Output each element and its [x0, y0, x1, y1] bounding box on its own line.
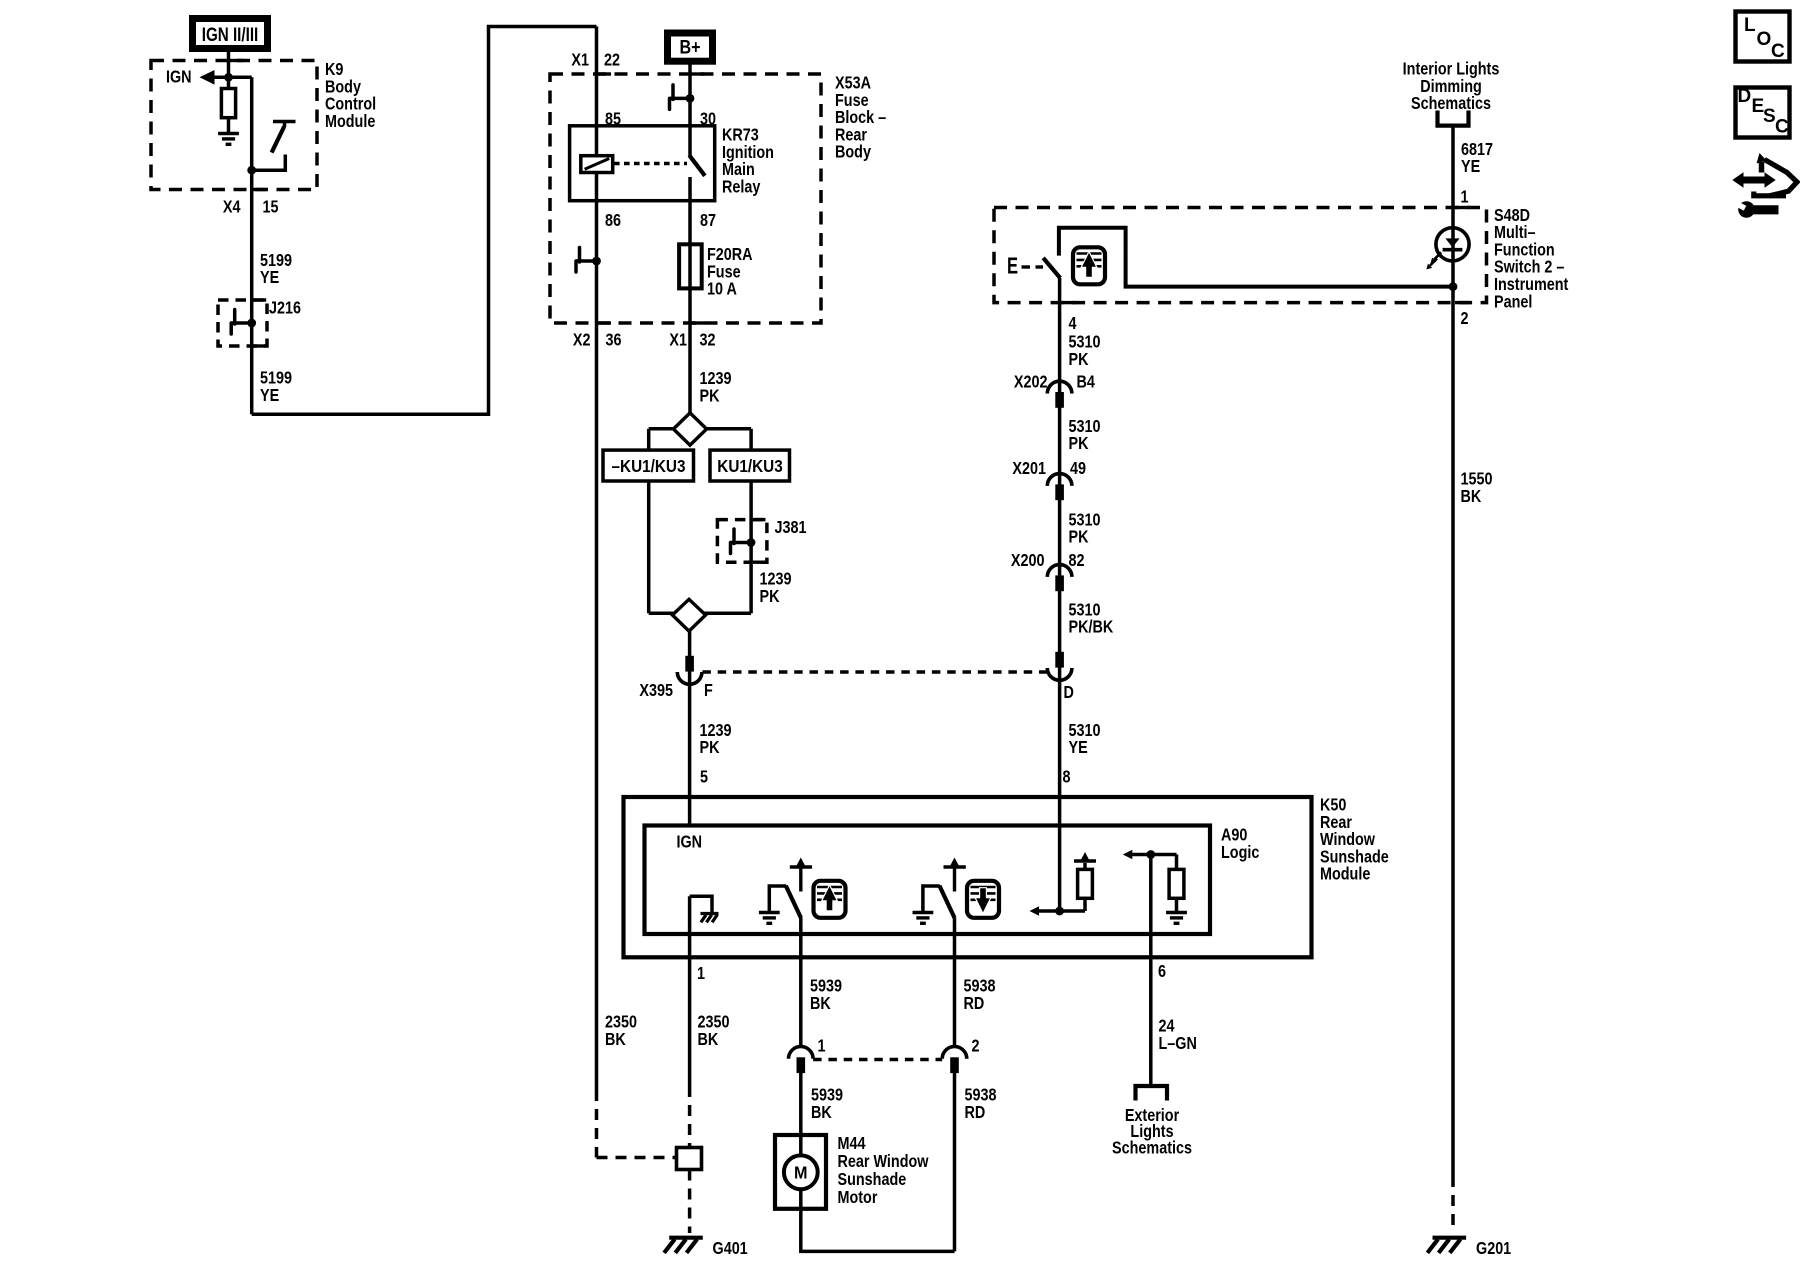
wire left KU branch down	[647, 481, 651, 613]
svg-text:86: 86	[605, 210, 621, 230]
svg-text:B+: B+	[679, 36, 700, 58]
svg-text:Sunshade: Sunshade	[838, 1169, 907, 1189]
wire K50 pin 6	[1149, 855, 1153, 1085]
splice J381 symbol	[731, 541, 755, 545]
wire 1239 PK label (to pin 5)	[700, 720, 732, 757]
window-up icon (S48D)	[1073, 247, 1105, 284]
logic input arrow from pin 8	[1030, 906, 1040, 916]
module K9 Body Control Module dashed outline	[151, 61, 317, 190]
dashed link to ground junction	[597, 1156, 677, 1160]
relay switch contact	[689, 155, 705, 176]
resistor R (BCM ignition sense)	[221, 89, 235, 118]
label M44 Rear Window Sunshade Motor	[838, 1133, 929, 1207]
svg-text:BK: BK	[698, 1029, 719, 1049]
window-up icon (A90)	[814, 881, 846, 918]
icon box LOC	[1736, 12, 1790, 62]
relay KR73 Ignition Main Relay box	[570, 126, 715, 201]
net label IGN (pin 5 into logic)	[677, 832, 703, 852]
svg-text:1: 1	[697, 964, 705, 984]
other-circuits hook on pin 30 feed	[670, 97, 694, 101]
icon wrench	[1738, 201, 1755, 218]
pin label 2 (S48D)	[1461, 309, 1469, 329]
driver switch UP (A90)	[769, 886, 786, 913]
svg-text:L–GN: L–GN	[1159, 1033, 1197, 1053]
relay KR73 pin labels 85 30	[605, 109, 621, 129]
svg-text:X395: X395	[639, 680, 673, 700]
lamp LED (S48D illumination)	[1436, 228, 1469, 261]
ground G201	[1433, 1236, 1467, 1240]
splice J216 dashed box	[218, 300, 267, 346]
svg-text:PK: PK	[760, 586, 780, 606]
harness link dashed (motor connector)	[813, 1058, 942, 1062]
connector pin 2 (motor harness)	[942, 1047, 967, 1059]
pin labels X4 15	[223, 197, 241, 217]
svg-text:Panel: Panel	[1494, 292, 1532, 312]
svg-text:C: C	[1771, 41, 1785, 62]
pin label 5	[700, 767, 708, 787]
svg-text:M44: M44	[838, 1133, 866, 1153]
connector pin 1 (motor harness)	[789, 1047, 814, 1059]
offpage label Exterior Lights Schematics	[1112, 1106, 1192, 1158]
wire 1550 BK label	[1461, 469, 1493, 506]
wire 1239 PK label (below J381)	[760, 569, 792, 606]
branch junction upper (to KU1/KU3)	[649, 427, 751, 431]
svg-text:YE: YE	[260, 268, 279, 288]
connector X201 49	[1047, 474, 1072, 486]
svg-text:PK: PK	[1069, 527, 1089, 547]
svg-text:IGN: IGN	[166, 67, 192, 87]
wire 5310 PK (X202-X201)	[1069, 416, 1101, 453]
wire motor return loop	[801, 1189, 955, 1251]
ground (pin 6 pull-down)	[1166, 911, 1187, 914]
svg-text:PK: PK	[700, 386, 720, 406]
icon hotlink arrows	[1741, 177, 1767, 184]
wire diamond to X395-F and K50 pin 5	[688, 631, 692, 826]
label S48D Multi-Function Switch 2 - Instrument Panel	[1494, 205, 1569, 311]
label KR73 Ignition Main Relay	[722, 125, 774, 197]
wire relay 86 down (X2-36)	[595, 173, 599, 1091]
svg-text:87: 87	[700, 210, 716, 230]
power feed label IGN II/III	[193, 19, 268, 49]
svg-text:PK: PK	[700, 738, 720, 758]
connector D (at X395)	[1055, 652, 1064, 668]
svg-text:6: 6	[1158, 962, 1166, 982]
wire 5199 YE (BCM pin 15)	[250, 77, 254, 414]
svg-text:4: 4	[1069, 313, 1077, 333]
node diamond lower	[672, 599, 705, 631]
svg-text:X2: X2	[573, 330, 591, 350]
pin ticks S48D	[1455, 206, 1470, 209]
svg-text:Schematics: Schematics	[1112, 1138, 1192, 1158]
chassis ground (module internal)	[690, 896, 712, 913]
harness link X395 dashed F to D	[702, 670, 1047, 674]
fuse block X53A dashed outline	[550, 74, 821, 323]
logic block A90 box	[645, 826, 1211, 935]
svg-text:BK: BK	[810, 993, 831, 1013]
offpage label Interior Lights Dimming Schematics	[1403, 59, 1500, 113]
svg-text:PK: PK	[1069, 349, 1089, 369]
svg-text:BK: BK	[811, 1102, 832, 1122]
svg-text:E: E	[1007, 254, 1018, 279]
wire B+ to relay pin 30	[688, 61, 692, 156]
wire 5310 YE label	[1069, 720, 1101, 757]
fuse box -KU1/KU3	[603, 450, 694, 481]
relay pin labels 86 87	[605, 210, 621, 230]
module K50 Rear Window Sunshade Module box	[624, 797, 1312, 957]
wire from IGN II/III into BCM	[227, 52, 231, 89]
svg-text:Rear Window: Rear Window	[838, 1151, 929, 1171]
driver switch DOWN (A90)	[923, 886, 940, 913]
branch junction lower	[649, 611, 751, 615]
svg-text:F: F	[704, 680, 713, 700]
svg-text:X1: X1	[571, 50, 589, 70]
svg-text:36: 36	[606, 330, 622, 350]
wire 2350 BK (pin 1 ground)	[698, 1012, 730, 1049]
connector X202 B4	[1047, 381, 1072, 393]
svg-text:B4: B4	[1077, 372, 1095, 392]
label A90 Logic	[1221, 825, 1259, 862]
svg-text:C: C	[1775, 117, 1789, 138]
svg-text:YE: YE	[1069, 738, 1088, 758]
svg-text:X201: X201	[1012, 459, 1046, 479]
offpage connector staple (interior lights)	[1438, 111, 1469, 126]
svg-text:Module: Module	[1320, 864, 1370, 884]
svg-text:O: O	[1757, 29, 1772, 50]
svg-text:J381: J381	[775, 518, 807, 538]
pin label 1 (K50)	[697, 964, 705, 984]
node IGN output arrow (BCM)	[166, 67, 192, 87]
power label B+	[668, 33, 713, 61]
svg-text:10 A: 10 A	[707, 279, 737, 299]
svg-text:J216: J216	[269, 298, 301, 318]
switch (BCM ignition contact)	[273, 120, 296, 124]
window-down icon (A90)	[967, 881, 999, 918]
relay coil KR73	[595, 27, 599, 156]
svg-text:Logic: Logic	[1221, 842, 1259, 862]
svg-text:YE: YE	[1461, 157, 1480, 177]
svg-text:8: 8	[1063, 767, 1071, 787]
svg-text:15: 15	[263, 197, 279, 217]
label X53A Fuse Block - Rear Body	[835, 73, 886, 162]
pin label 8	[1063, 767, 1071, 787]
pull-up resistor (pin 8)	[1083, 898, 1087, 911]
svg-text:BK: BK	[605, 1029, 626, 1049]
pin labels X2 36 X1 32	[573, 330, 591, 350]
splice J381 dashed box	[717, 520, 767, 563]
svg-text:M: M	[794, 1163, 807, 1183]
svg-text:1: 1	[1461, 187, 1469, 207]
connector X200 82	[1047, 565, 1072, 577]
svg-text:YE: YE	[260, 385, 279, 405]
svg-text:Module: Module	[325, 111, 375, 131]
svg-text:22: 22	[604, 50, 620, 70]
other-circuits hook on 86 wire	[576, 259, 600, 263]
svg-text:2: 2	[972, 1036, 980, 1056]
label K50 Rear Window Sunshade Module	[1320, 795, 1389, 884]
supply arrow UP driver	[790, 865, 812, 868]
relay actuation dashed link	[614, 162, 687, 166]
logic output arrow (pin 6 line)	[1123, 850, 1133, 860]
wire 5939 BK (module output)	[799, 918, 803, 1047]
pin labels X1 22	[571, 50, 589, 70]
wire right KU branch down	[749, 481, 753, 613]
svg-text:RD: RD	[965, 1102, 986, 1122]
wire 5310 PK (X201-X200)	[1069, 510, 1101, 547]
svg-text:Relay: Relay	[722, 177, 760, 197]
svg-text:RD: RD	[964, 993, 985, 1013]
svg-text:X202: X202	[1014, 372, 1048, 392]
icon box DESC	[1736, 88, 1790, 138]
wire 5938 RD (to motor)	[953, 1062, 957, 1251]
ground (BCM internal earth)	[218, 132, 239, 135]
fuse box KU1/KU3	[710, 450, 790, 481]
lamp light rays	[1434, 252, 1441, 259]
svg-text:1: 1	[818, 1036, 826, 1056]
wire module ground pin 1	[688, 896, 692, 1086]
svg-text:32: 32	[700, 330, 716, 350]
svg-text:L: L	[1744, 15, 1756, 36]
label K9 Body Control Module	[325, 60, 376, 132]
wire 1550 BK dashed to G201	[1451, 1176, 1455, 1233]
wire relay 87 to fuse F20RA	[688, 177, 692, 414]
pull-down resistor (pin 6)	[1175, 855, 1179, 870]
connector X395 F	[685, 656, 694, 672]
svg-text:49: 49	[1070, 459, 1086, 479]
svg-text:BK: BK	[1461, 486, 1482, 506]
splice J216 symbol	[231, 321, 255, 325]
switch S48D contact E	[1007, 254, 1018, 279]
motor M44 armature	[784, 1155, 818, 1189]
svg-text:5: 5	[700, 767, 708, 787]
wire 6817 YE	[1451, 126, 1455, 1176]
offpage connector staple (exterior lights)	[1136, 1086, 1168, 1101]
pin label 4 and wire 5310 PK	[1058, 278, 1062, 911]
pin label 1 (S48D)	[1461, 187, 1469, 207]
svg-text:S: S	[1763, 106, 1776, 127]
wire 5939 BK (to motor)	[799, 1062, 803, 1156]
svg-text:D: D	[1738, 86, 1752, 107]
ground junction block (G401 eyelet)	[677, 1148, 702, 1170]
svg-text:IGN II/III: IGN II/III	[202, 24, 259, 46]
svg-text:X4: X4	[223, 197, 241, 217]
motor M44 box	[775, 1135, 826, 1209]
svg-text:D: D	[1064, 682, 1075, 702]
svg-text:2: 2	[1461, 309, 1469, 329]
node diamond upper	[673, 413, 706, 445]
svg-text:IGN: IGN	[677, 832, 703, 852]
svg-text:Schematics: Schematics	[1411, 94, 1491, 114]
svg-text:G201: G201	[1476, 1238, 1511, 1258]
svg-text:X1: X1	[669, 330, 687, 350]
wire 24 L-GN (pin 6 to exterior lights)	[1159, 1016, 1197, 1053]
wire junction to G401	[688, 1170, 692, 1234]
switch S48D dashed outline	[994, 208, 1487, 303]
svg-text:G401: G401	[713, 1238, 748, 1258]
pin label 6 (K50)	[1158, 962, 1166, 982]
svg-text:82: 82	[1069, 551, 1085, 571]
switch S48D fixed contact and output to lamp	[1059, 228, 1453, 287]
ground G401	[669, 1236, 703, 1240]
fuse F20RA 10A	[679, 244, 702, 288]
svg-text:X200: X200	[1011, 551, 1045, 571]
svg-text:PK/BK: PK/BK	[1069, 617, 1114, 637]
wire 5310 PK/BK label	[1069, 600, 1114, 637]
wire routing loop to fuse block X1-22	[252, 27, 597, 415]
wire 2350 BK (X2-36 ground branch)	[595, 1090, 599, 1158]
wire 1239 PK label	[700, 369, 732, 406]
svg-text:KU1/KU3: KU1/KU3	[717, 456, 782, 476]
wire 5199 YE below J216	[260, 368, 292, 405]
supply arrow DOWN driver	[944, 865, 966, 868]
svg-text:Motor: Motor	[838, 1187, 879, 1207]
svg-text:Body: Body	[835, 142, 871, 162]
svg-text:–KU1/KU3: –KU1/KU3	[612, 456, 686, 476]
wire 5938 RD (module output)	[953, 918, 957, 1047]
svg-text:PK: PK	[1069, 434, 1089, 454]
